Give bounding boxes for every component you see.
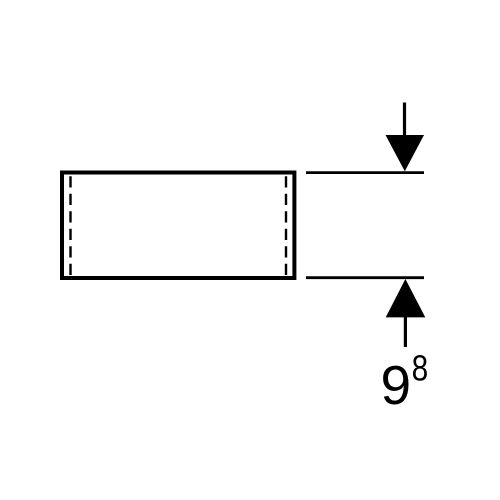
arrow top shaft (403, 103, 406, 141)
extension line top (306, 171, 424, 174)
svg-text:8: 8 (412, 348, 429, 389)
dashed hidden edge left (69, 176, 71, 275)
svg-text:9: 9 (381, 354, 412, 416)
dashed hidden edge right (285, 176, 287, 275)
arrow bottom shaft (404, 313, 407, 347)
arrow top head (386, 135, 425, 171)
arrow bottom head (386, 279, 426, 317)
product body rectangle (62, 173, 294, 279)
extension line bottom (306, 276, 424, 279)
